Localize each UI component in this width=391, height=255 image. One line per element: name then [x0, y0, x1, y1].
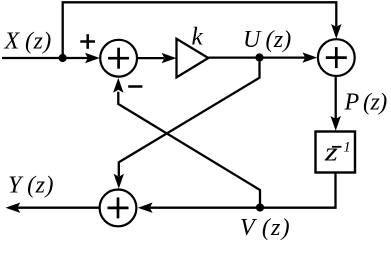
- wire: gain output to adder J2: [209, 52, 318, 62]
- delay block z^-1: [316, 132, 356, 173]
- svg-text:Y (z): Y (z): [8, 173, 54, 199]
- svg-text:P (z): P (z): [344, 90, 388, 116]
- svg-text:X (z): X (z): [4, 29, 52, 55]
- node: input branch point: [59, 54, 67, 62]
- wire: V(z) feedback up to J1 minus input (diagonal): [113, 78, 260, 208]
- node U(z): [255, 53, 263, 61]
- wire: input X(z) line into adder J1: [2, 53, 100, 63]
- wire: J3 output Y(z) to the left: [6, 203, 100, 213]
- wire: J1 output to gain block: [137, 53, 176, 63]
- summing junction (adder) J2: [318, 39, 355, 76]
- label: minus sign at J1 feedback input: [128, 85, 142, 88]
- svg-text:U (z): U (z): [243, 27, 291, 53]
- svg-text:V (z): V (z): [240, 215, 291, 241]
- summing junction (adder) J3: [100, 190, 137, 227]
- wire: J2 output down to delay block, P(z) net: [331, 77, 341, 131]
- summing junction (adder) J1: [100, 40, 137, 77]
- label: plus sign at J1 input: [80, 34, 95, 49]
- svg-text:k: k: [192, 24, 204, 51]
- svg-text:1: 1: [343, 139, 351, 155]
- wire: delay output down and left along bottom into adder J3: [138, 173, 336, 213]
- wire: U(z) cross-feed down to J3 input (diagonal): [114, 58, 260, 189]
- svg-text:z: z: [324, 138, 338, 167]
- node V(z): [256, 203, 264, 211]
- wire: feedforward path from input node over the top to adder J2: [63, 2, 342, 58]
- gain k (amplifier triangle): [177, 39, 209, 78]
